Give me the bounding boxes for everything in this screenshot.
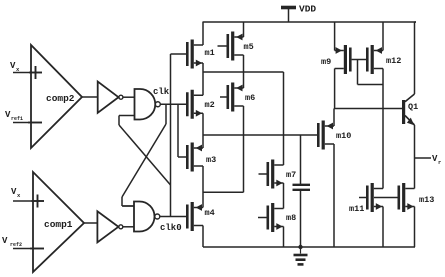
wire m6 drain to node B xyxy=(243,106,245,135)
transistor m2 xyxy=(186,90,215,119)
svg-text:VDD: VDD xyxy=(299,4,316,15)
wire cross diagonal clk to nand2 xyxy=(122,124,166,206)
wire m13 drain up xyxy=(414,188,416,190)
minus input comp1 xyxy=(30,248,44,250)
wire inverter to nand1 xyxy=(123,96,135,98)
wire m10 drain up to base node xyxy=(333,109,335,127)
svg-text:m8: m8 xyxy=(286,213,296,223)
wire clk to m2 gate xyxy=(160,103,186,105)
wire Vx to comp2 xyxy=(13,72,29,74)
node Vr label xyxy=(432,154,441,166)
wire m11 source to ground rail xyxy=(382,207,384,248)
wire Vx to comp1 xyxy=(13,200,32,202)
transistor m12 xyxy=(366,45,401,74)
transistor m7 xyxy=(267,160,297,189)
svg-text:m12: m12 xyxy=(386,56,401,66)
svg-text:V: V xyxy=(2,236,8,246)
svg-text:Q1: Q1 xyxy=(408,102,418,112)
comparator comp1 xyxy=(33,172,84,272)
wire m13 gate to m11 xyxy=(374,197,398,199)
wire Vr output xyxy=(415,157,432,159)
transistor m13 xyxy=(398,183,435,212)
svg-text:m11: m11 xyxy=(349,204,364,214)
wire cross diagonal clk0 to nand1 xyxy=(119,116,171,186)
svg-text:m7: m7 xyxy=(286,170,296,180)
svg-text:m4: m4 xyxy=(205,208,215,218)
wire comp1 output to inverter xyxy=(84,222,97,224)
wire m9 m12 gates xyxy=(352,59,366,61)
node clk label xyxy=(153,87,170,97)
svg-text:ref2: ref2 xyxy=(10,242,22,248)
svg-text:r: r xyxy=(438,159,441,166)
svg-text:m9: m9 xyxy=(321,57,331,67)
minus input comp2 xyxy=(28,122,42,124)
wire gate node to m12 drain xyxy=(358,60,384,85)
wire m1 gate xyxy=(171,53,187,55)
wire m4 source to ground rail xyxy=(202,226,204,248)
transistor m8 xyxy=(267,203,297,232)
transistor m5 xyxy=(227,32,254,61)
wire comp2 output to inverter xyxy=(82,96,98,98)
wire m3 source to m4 drain xyxy=(202,166,204,208)
svg-text:x: x xyxy=(17,192,21,199)
transistor m3 xyxy=(186,143,216,172)
wire clk to m3 gate xyxy=(178,104,186,157)
inverter U1 xyxy=(98,82,123,113)
wire m9 source to rail xyxy=(334,22,336,51)
plus input comp2 xyxy=(29,66,42,79)
transistor m1 xyxy=(186,40,215,69)
wire m5 drain to node A xyxy=(243,55,245,72)
svg-text:clk0: clk0 xyxy=(160,223,182,233)
wire Q1 collector to rail xyxy=(415,22,417,94)
wire base node to Q1 xyxy=(334,108,402,110)
svg-text:m1: m1 xyxy=(205,48,215,58)
wire Q1 emitter down xyxy=(414,125,416,189)
power rail VDD xyxy=(203,21,417,23)
wire m2 source to m3 drain xyxy=(202,113,204,148)
ground rail xyxy=(203,246,415,248)
wire m6 source to node A xyxy=(243,72,245,88)
node Vref2 label xyxy=(2,236,22,248)
VDD symbol xyxy=(281,4,316,23)
wire node B to capacitor xyxy=(300,135,302,184)
wire nand2 upper input stub xyxy=(123,205,135,207)
wire m1 source to node A xyxy=(202,63,204,95)
node Vx label comp1 xyxy=(11,187,21,199)
wire clk0 to m4 gate xyxy=(160,216,186,218)
transistor m11 xyxy=(349,183,383,214)
wire m7 gate stub xyxy=(259,173,267,175)
wire clk0 riser to m1 gate xyxy=(170,54,172,217)
plus input comp1 xyxy=(32,195,45,208)
wire capacitor to ground rail xyxy=(300,191,302,247)
transistor m6 xyxy=(227,83,256,112)
wire m8 source to ground rail xyxy=(283,227,285,248)
transistor m9 xyxy=(321,45,352,74)
nand gate G2 xyxy=(134,202,160,232)
transistor m10 xyxy=(317,121,351,150)
nand gate G1 xyxy=(135,89,161,120)
transistor Q1 xyxy=(402,94,418,125)
wire m10 source to ground rail xyxy=(333,144,335,247)
wire clk cross drop xyxy=(165,104,167,124)
wire m7 source to m8 drain xyxy=(283,183,285,209)
node Vx label xyxy=(10,61,20,73)
node B horizontal xyxy=(203,134,317,136)
ground symbol xyxy=(294,247,308,264)
wire m9 drain to base node xyxy=(334,69,336,109)
wire node B to m3/m4 junction xyxy=(203,135,244,192)
wire m8 gate stub xyxy=(258,217,267,219)
wire m1 drain to rail xyxy=(202,22,204,45)
svg-text:m6: m6 xyxy=(245,93,255,103)
svg-text:m3: m3 xyxy=(206,155,216,165)
wire m5 source to rail xyxy=(243,22,245,37)
node Vref1 label xyxy=(5,110,23,122)
wire m5 gate stub xyxy=(218,45,227,47)
node clk0 label xyxy=(160,223,182,233)
junction dot xyxy=(298,245,302,249)
svg-text:m13: m13 xyxy=(419,195,434,205)
wire m12 drain down to m11 drain xyxy=(382,69,384,189)
svg-text:clk: clk xyxy=(153,87,170,97)
svg-text:m10: m10 xyxy=(336,131,351,141)
inverter U2 xyxy=(97,211,122,242)
node A horizontal xyxy=(203,71,284,73)
wire Vref2 to comp1 xyxy=(13,248,30,250)
capacitor C1 xyxy=(293,185,311,190)
transistor m4 xyxy=(186,202,215,231)
wire m12 source to rail xyxy=(382,22,384,51)
wire Vref1 to comp2 xyxy=(13,122,28,124)
wire m11 gate stub xyxy=(359,197,366,199)
svg-text:m5: m5 xyxy=(244,42,254,52)
wire m6 gate to node A xyxy=(220,96,227,98)
svg-text:comp2: comp2 xyxy=(46,93,75,104)
svg-text:ref1: ref1 xyxy=(11,116,23,122)
comparator comp2 xyxy=(31,45,82,148)
svg-text:m2: m2 xyxy=(205,100,215,110)
svg-text:comp1: comp1 xyxy=(44,219,73,230)
wire m13 source to ground rail xyxy=(414,207,416,248)
wire inverter to nand2 xyxy=(123,226,134,228)
wire node A to m7 drain xyxy=(283,72,285,165)
